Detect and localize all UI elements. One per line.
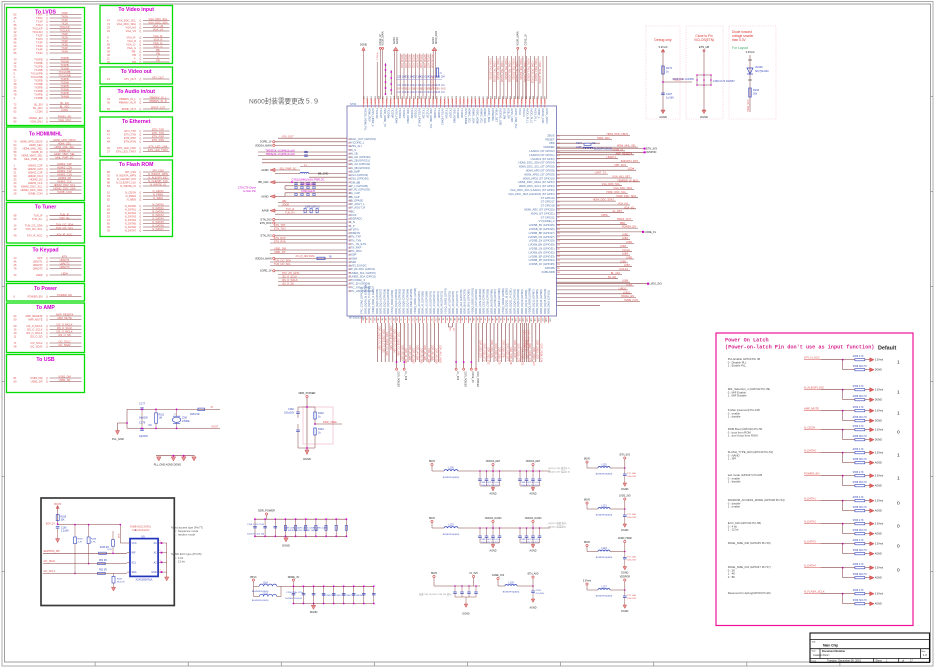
svg-text:C78(1)C(MHL)5u3A_PWR_DC: C78(1)C(MHL)5u3A_PWR_DC	[292, 179, 325, 182]
svg-text:1 : Enable PLL: 1 : Enable PLL	[728, 364, 747, 368]
svg-text:SEL_PWR_DC: SEL_PWR_DC	[280, 167, 297, 170]
svg-text:125: 125	[557, 229, 560, 231]
svg-text:0: 0	[897, 568, 900, 574]
svg-text:R164 0R: R164 0R	[190, 413, 200, 416]
svg-text:230: 230	[348, 244, 351, 246]
svg-text:DDR_POWER: DDR_POWER	[397, 372, 400, 388]
svg-text:LVDS_3V3: LVDS_3V3	[650, 283, 663, 286]
svg-text:R158 NC4.7K: R158 NC4.7K	[853, 436, 868, 438]
svg-text:4: 4	[160, 570, 161, 572]
svg-text:103: 103	[526, 318, 528, 321]
svg-text:72: 72	[407, 318, 409, 320]
svg-text:L139: L139	[576, 146, 582, 149]
svg-text:3.3Vmb: 3.3Vmb	[875, 543, 884, 546]
svg-text:89: 89	[472, 318, 474, 320]
svg-text:I2C_SDA1: I2C_SDA1	[44, 560, 56, 563]
svg-text:136: 136	[557, 272, 560, 274]
svg-text:L116: L116	[263, 594, 269, 596]
svg-text:2.2u/6V: 2.2u/6V	[61, 531, 69, 533]
svg-text:NC: NC	[452, 328, 454, 332]
svg-text:BLM18PG(0603): BLM18PG(0603)	[596, 515, 613, 517]
svg-text:PBD: PBD	[620, 222, 625, 225]
svg-text:DDR_DQ0_G70: DDR_DQ0_G70	[479, 340, 482, 358]
svg-text:1: 1	[897, 476, 900, 482]
svg-text:BFV1: BFV1	[250, 576, 257, 579]
svg-text:LVB1: LVB1	[622, 237, 629, 240]
svg-text:C77(1)1x1n5: C77(1)1x1n5	[301, 183, 315, 186]
svg-text:74: 74	[415, 318, 417, 320]
svg-text:3.3Vmb: 3.3Vmb	[875, 567, 884, 570]
svg-text:5LBADT3_KPX: 5LBADT3_KPX	[621, 160, 639, 163]
svg-text:AVD33_AD4: AVD33_AD4	[415, 55, 418, 69]
svg-text:3.3Vmb: 3.3Vmb	[875, 500, 884, 503]
svg-text:1 : disable: 1 : disable	[728, 480, 741, 484]
svg-text:L127: L127	[601, 586, 607, 589]
svg-text:NC: NC	[448, 328, 450, 332]
svg-text:VDDOA_DET: VDDOA_DET	[526, 460, 541, 463]
svg-text:VDDOA_NANN: VDDOA_NANN	[485, 517, 502, 520]
svg-text:ETN_TXP: ETN_TXP	[274, 224, 286, 227]
svg-text:BLM18PG(1005): BLM18PG(1005)	[252, 600, 269, 602]
svg-text:CAME_3V3: CAME_3V3	[492, 574, 505, 577]
svg-text:Z2M: Z2M	[182, 416, 187, 419]
svg-text:1 : 12 bit: 1 : 12 bit	[728, 528, 739, 532]
svg-text:AGND: AGND	[432, 37, 435, 44]
svg-text:L121: L121	[601, 505, 607, 508]
svg-text:DGND: DGND	[360, 44, 367, 47]
svg-text:100u/16V: 100u/16V	[284, 412, 295, 415]
svg-text:ETN_AVD: ETN_AVD	[528, 573, 539, 576]
svg-text:HDMI_TX10_SGN23: HDMI_TX10_SGN23	[527, 59, 530, 82]
svg-text:BB_CAD: BB_CAD	[258, 181, 268, 184]
svg-text:HDMI_MHL_SEL: HDMI_MHL_SEL	[617, 145, 637, 148]
svg-text:96: 96	[499, 318, 501, 320]
svg-text:217: 217	[348, 197, 351, 199]
svg-text:117: 117	[557, 198, 560, 200]
svg-text:107: 107	[541, 318, 543, 321]
svg-text:SPDIF_OUT: SPDIF_OUT	[617, 218, 632, 221]
svg-text:108: 108	[557, 163, 560, 165]
svg-text:DDR_DQ14_G74: DDR_DQ14_G74	[532, 347, 535, 366]
svg-text:VGA_DDC_SDA: VGA_DDC_SDA	[613, 187, 632, 190]
svg-text:DDR_DQ1_G71: DDR_DQ1_G71	[483, 344, 486, 362]
svg-text:227: 227	[348, 233, 351, 235]
svg-text:DGND: DGND	[621, 529, 628, 532]
svg-text:105: 105	[533, 318, 535, 321]
svg-text:AGND: AGND	[875, 577, 882, 580]
svg-text:121: 121	[557, 213, 560, 215]
svg-text:47u_R_ADJ R131: 47u_R_ADJ R131	[295, 255, 315, 258]
svg-text:VDDR_MAIN: VDDR_MAIN	[382, 31, 385, 45]
svg-text:109: 109	[549, 318, 551, 321]
svg-text:LBADT1: LBADT1	[607, 156, 617, 159]
svg-text:1 : disable: 1 : disable	[728, 415, 741, 419]
svg-text:3.3Vmb: 3.3Vmb	[875, 452, 884, 455]
svg-text:R158 NC4.7K: R158 NC4.7K	[853, 507, 868, 509]
svg-text:214: 214	[348, 186, 351, 188]
svg-text:HDMI_TX5_SGN23: HDMI_TX5_SGN23	[508, 61, 511, 83]
svg-text:118: 118	[557, 202, 560, 204]
svg-text:DGND: DGND	[462, 613, 469, 616]
svg-text:79: 79	[434, 318, 436, 320]
svg-text:86: 86	[461, 318, 463, 320]
svg-text:DDR_A6_G66: DDR_A6_G66	[423, 345, 426, 361]
svg-text:100: 100	[514, 318, 516, 321]
svg-text:AMP_RESET#: AMP_RESET#	[615, 152, 632, 155]
svg-text:XMHL: XMHL	[601, 214, 609, 217]
svg-text:0: 0	[897, 501, 900, 507]
svg-text:B0V0: B0V0	[429, 460, 436, 463]
svg-text:R347: R347	[78, 539, 84, 541]
svg-text:BL_ADJ: BL_ADJ	[611, 272, 621, 275]
svg-text:C163: C163	[536, 590, 542, 592]
svg-text:24p/50V: 24p/50V	[139, 417, 148, 420]
svg-text:R162: R162	[318, 412, 324, 415]
svg-text:1 : enable: 1 : enable	[728, 505, 741, 509]
svg-text:SCL: SCL	[132, 561, 137, 564]
svg-text:R179: R179	[576, 142, 582, 145]
svg-text:61: 61	[365, 318, 367, 320]
svg-text:1 : 12 bit: 1 : 12 bit	[174, 559, 185, 563]
svg-text:100u/16V: 100u/16V	[627, 560, 637, 562]
svg-text:AGND: AGND	[490, 493, 497, 496]
svg-text:TMDS(2)L-LC(MHL)1x1n5: TMDS(2)L-LC(MHL)1x1n5	[265, 153, 295, 156]
svg-text:To Audio in/out: To Audio in/out	[117, 89, 155, 95]
svg-text:DGND: DGND	[875, 369, 882, 372]
svg-text:R158 NC4.7K: R158 NC4.7K	[853, 482, 868, 484]
svg-text:R158 NC4.7K: R158 NC4.7K	[853, 366, 868, 368]
svg-text:AVD33_AD5: AVD33_AD5	[419, 55, 422, 69]
svg-text:DDR_DQ15_G75: DDR_DQ15_G75	[536, 340, 539, 359]
svg-text:94: 94	[491, 318, 493, 320]
svg-text:LVB4: LVB4	[622, 253, 629, 256]
svg-text:BOV5: BOV5	[54, 503, 61, 506]
svg-text:LVB0: LVB0	[622, 233, 629, 236]
svg-text:60: 60	[361, 318, 363, 320]
svg-text:R247: R247	[117, 579, 123, 581]
svg-text:NC4.7K: NC4.7K	[117, 581, 125, 583]
svg-text:210: 210	[348, 171, 351, 173]
svg-text:R156 4.7K: R156 4.7K	[853, 520, 864, 522]
svg-text:24p/50V: 24p/50V	[139, 435, 148, 438]
svg-text:62: 62	[369, 318, 371, 320]
svg-text:204: 204	[348, 150, 351, 152]
svg-text:4.7u/16V: 4.7u/16V	[536, 593, 545, 595]
svg-text:101: 101	[518, 318, 520, 321]
svg-text:63: 63	[373, 318, 375, 320]
svg-text:DDR_A7_G67: DDR_A7_G67	[427, 348, 430, 364]
svg-text:R161: R161	[159, 414, 165, 417]
svg-text:DDR_DQ4_G74: DDR_DQ4_G74	[494, 344, 497, 362]
svg-text:To USB: To USB	[36, 357, 55, 363]
svg-text:4.7K: 4.7K	[91, 541, 96, 543]
svg-text:113R/113R 0.5: 113R/113R 0.5	[304, 206, 320, 208]
svg-text:C146 104 C147 0.1u: C146 104 C147 0.1u	[520, 482, 540, 484]
svg-text:105: 105	[557, 151, 560, 153]
svg-text:ETN_TXN: ETN_TXN	[274, 228, 286, 231]
svg-text:1.0: 1.0	[923, 653, 927, 657]
svg-text:UART_TX: UART_TX	[595, 172, 607, 175]
svg-text:112: 112	[557, 178, 560, 180]
svg-text:5VMB_CON: 5VMB_CON	[624, 299, 638, 302]
svg-text:NAND ECC type (Pin76): NAND ECC type (Pin76)	[171, 552, 202, 556]
svg-text:91: 91	[480, 318, 482, 320]
svg-text:126: 126	[557, 233, 560, 235]
svg-text:R348: R348	[91, 539, 97, 541]
svg-text:USB1_DP: USB1_DP	[274, 251, 286, 254]
svg-text:Reserved for debug(GPIO9 Pin16: Reserved for debug(GPIO9 Pin16)	[728, 591, 771, 595]
svg-text:of: of	[902, 660, 904, 663]
svg-text:HDMI_CEC: HDMI_CEC	[597, 137, 610, 140]
svg-text:HDMI_TX6_SGN23: HDMI_TX6_SGN23	[511, 59, 514, 81]
svg-text:ETN_RXN: ETN_RXN	[274, 241, 286, 244]
svg-text:119: 119	[557, 206, 560, 208]
svg-text:Need access type (Pin77): Need access type (Pin77)	[171, 525, 203, 529]
svg-text:95: 95	[495, 318, 497, 320]
svg-text:AGND: AGND	[530, 493, 537, 496]
svg-text:Main Chip: Main Chip	[823, 643, 838, 647]
svg-text:POWER_EN: POWER_EN	[622, 226, 637, 229]
svg-text:B0V0: B0V0	[429, 517, 436, 520]
svg-text:I2S_O_SCLK: I2S_O_SCLK	[282, 276, 297, 279]
svg-text:10K: 10K	[61, 519, 66, 521]
svg-text:3.3Vmb: 3.3Vmb	[875, 389, 884, 392]
svg-text:I2S_O_WCLK: I2S_O_WCLK	[282, 279, 298, 282]
svg-text:AGND: AGND	[490, 550, 497, 553]
svg-text:C168 C171 104/50V: C168 C171 104/50V	[672, 78, 694, 81]
svg-text:C160: C160	[61, 528, 67, 530]
svg-text:AVDD_HDMI: AVDD_HDMI	[618, 537, 632, 540]
svg-text:DDR_DQS2_CK_G52: DDR_DQS2_CK_G52	[385, 332, 388, 356]
svg-text:DDR_POWER: DDR_POWER	[476, 372, 479, 388]
svg-text:LVB2: LVB2	[626, 241, 633, 244]
svg-text:VDDOA_MAIN: VDDOA_MAIN	[255, 257, 272, 260]
svg-text:1: 1	[160, 541, 161, 543]
svg-text:LVB7: LVB7	[624, 264, 631, 267]
svg-text:Default: Default	[878, 346, 896, 352]
svg-text:113: 113	[557, 182, 560, 184]
svg-text:I2S_O_SD: I2S_O_SD	[282, 283, 294, 286]
svg-text:AVD33_AD0: AVD33_AD0	[400, 55, 403, 69]
svg-text:TUN_IF: TUN_IF	[286, 208, 295, 211]
svg-text:HDMI_TX4_SGN23: HDMI_TX4_SGN23	[504, 59, 507, 81]
svg-text:R164: R164	[318, 428, 324, 431]
svg-text:HDMI_TX12_SGN23: HDMI_TX12_SGN23	[534, 59, 537, 82]
svg-text:205: 205	[348, 153, 351, 155]
svg-text:VCC: VCC	[132, 542, 137, 545]
svg-text:223: 223	[348, 218, 351, 220]
svg-text:BLM18PG(0603): BLM18PG(0603)	[443, 477, 460, 479]
svg-text:DDR_POWER: DDR_POWER	[464, 372, 467, 388]
svg-text:HDMI_TX11_SGN23: HDMI_TX11_SGN23	[530, 61, 533, 84]
svg-text:122: 122	[557, 217, 560, 219]
svg-text:114: 114	[557, 186, 560, 188]
svg-text:235: 235	[348, 262, 351, 264]
svg-text:HDMI_DDC_SDA: HDMI_DDC_SDA	[616, 195, 636, 198]
svg-text:LVCLK: LVCLK	[622, 249, 630, 252]
svg-text:132: 132	[557, 256, 560, 258]
svg-text:3: 3	[160, 560, 161, 562]
svg-text:Close to Pin: Close to Pin	[695, 34, 712, 38]
svg-text:AGND: AGND	[875, 603, 882, 606]
svg-text:ETN_3V3: ETN_3V3	[261, 218, 272, 221]
svg-text:X24C08S8T&A: X24C08S8T&A	[136, 579, 153, 582]
svg-text:69: 69	[396, 318, 398, 320]
svg-text:90: 90	[476, 318, 478, 320]
svg-text:HDMI_TX2_SGN23: HDMI_TX2_SGN23	[496, 59, 499, 81]
svg-text:HDMI_TX8_SGN23: HDMI_TX8_SGN23	[519, 59, 522, 81]
svg-text:R246 0R: R246 0R	[100, 547, 109, 549]
svg-text:73: 73	[411, 318, 413, 320]
svg-text:CORE_1V: CORE_1V	[260, 270, 272, 273]
svg-text:229: 229	[348, 240, 351, 242]
svg-text:108: 108	[545, 318, 547, 321]
svg-text:L114: L114	[263, 583, 269, 585]
svg-text:LVB11: LVB11	[623, 291, 631, 294]
svg-text:224: 224	[348, 222, 351, 224]
svg-text:For Layout: For Layout	[732, 46, 748, 50]
svg-text:TUN_I2C_SDA: TUN_I2C_SDA	[274, 260, 291, 263]
svg-text:LVDS_3V3: LVDS_3V3	[619, 495, 631, 498]
svg-text:ETN_RXP: ETN_RXP	[274, 237, 286, 240]
svg-text:B0V5: B0V5	[431, 572, 438, 575]
svg-text:EEP: EEP	[119, 533, 121, 538]
svg-text:3.3Vmb: 3.3Vmb	[875, 593, 884, 596]
svg-text:AGND: AGND	[875, 462, 882, 465]
svg-text:DGND: DGND	[621, 572, 628, 575]
svg-text:84: 84	[453, 318, 455, 320]
svg-text:5VMB NC(3.3V/5V): 5VMB NC(3.3V/5V)	[130, 526, 151, 529]
svg-text:111: 111	[557, 174, 560, 176]
svg-text:than 0.3V: than 0.3V	[732, 38, 747, 42]
svg-text:71: 71	[403, 318, 405, 320]
svg-text:100u/16V: 100u/16V	[627, 598, 637, 600]
svg-text:BLM18PG(0603): BLM18PG(0603)	[596, 474, 613, 476]
svg-text:236: 236	[348, 266, 351, 268]
svg-text:77: 77	[426, 318, 428, 320]
svg-text:80: 80	[438, 318, 440, 320]
svg-text:GND: GND	[151, 571, 157, 574]
svg-text:AGND: AGND	[261, 169, 268, 172]
svg-text:CORE_1V: CORE_1V	[645, 231, 657, 234]
svg-text:R158 NC4.7K: R158 NC4.7K	[853, 550, 868, 552]
svg-text:To Ethernet: To Ethernet	[122, 119, 151, 125]
svg-text:DGND: DGND	[875, 399, 882, 402]
svg-text:AGND: AGND	[393, 37, 396, 44]
svg-text:115: 115	[557, 190, 560, 192]
svg-text:NC 104 NC 104 NC 104 NC 104 10: NC 104 NC 104 NC 104 NC 104 104	[284, 530, 319, 532]
svg-text:To Video out: To Video out	[121, 69, 152, 75]
svg-text:EEPROM_WP: EEPROM_WP	[44, 550, 61, 553]
svg-text:75: 75	[419, 318, 421, 320]
svg-text:R158 NC4.7K: R158 NC4.7K	[853, 417, 868, 419]
svg-text:R156 4.7K: R156 4.7K	[853, 386, 864, 388]
svg-text:DDR_CKE_G89: DDR_CKE_G89	[523, 330, 526, 348]
svg-text:100u/16V: 100u/16V	[627, 476, 637, 478]
svg-text:To HDMI/MHL: To HDMI/MHL	[29, 132, 63, 138]
svg-text:DDR_A3_G63: DDR_A3_G63	[412, 348, 415, 364]
svg-text:BLM18PG(0603): BLM18PG(0603)	[443, 534, 460, 536]
svg-text:98: 98	[507, 318, 509, 320]
svg-text:1M: 1M	[159, 417, 162, 420]
svg-text:238: 238	[348, 273, 351, 275]
svg-text:DDR_DQ16_G76: DDR_DQ16_G76	[540, 344, 543, 363]
svg-text:116: 116	[557, 194, 560, 196]
svg-text:237: 237	[348, 269, 351, 271]
svg-text:DDR_CSB_G90: DDR_CSB_G90	[527, 330, 530, 348]
svg-text:R156 4.7K: R156 4.7K	[853, 497, 864, 499]
svg-text:93: 93	[487, 318, 489, 320]
svg-text:AGND: AGND	[530, 550, 537, 553]
svg-text:HDMI_TX1_SGN23: HDMI_TX1_SGN23	[492, 61, 495, 83]
svg-text:4.7K: 4.7K	[78, 541, 83, 543]
svg-text:HDMI_TX3_SGN23: HDMI_TX3_SGN23	[500, 61, 503, 83]
svg-text:DDR_A10_G610: DDR_A10_G610	[438, 345, 441, 364]
svg-text:DGND: DGND	[621, 488, 628, 491]
svg-text:DDR_DQ6_G76: DDR_DQ6_G76	[502, 340, 505, 358]
svg-text:LVCLK2: LVCLK2	[619, 268, 629, 271]
svg-text:BLM18PG(0603): BLM18PG(0603)	[596, 557, 613, 559]
svg-text:AVD33_AD3: AVD33_AD3	[412, 55, 415, 69]
svg-text:VDDOA_MAIN: VDDOA_MAIN	[255, 144, 272, 147]
svg-text:3.3Vmb: 3.3Vmb	[875, 410, 884, 413]
svg-text:203: 203	[348, 146, 351, 148]
svg-text:B0V0: B0V0	[584, 458, 591, 461]
svg-text:BB_GND: BB_GND	[318, 173, 328, 176]
svg-text:R156 4.7K: R156 4.7K	[853, 590, 864, 592]
svg-text:AVD33_AD6: AVD33_AD6	[423, 55, 426, 69]
svg-text:133: 133	[557, 260, 560, 262]
svg-text:R163: R163	[753, 89, 760, 92]
svg-text:Debug only: Debug only	[654, 38, 671, 42]
svg-text:L122: L122	[448, 524, 454, 527]
svg-text:voltage smaller: voltage smaller	[732, 34, 754, 38]
svg-text:VGA_DDC_SCL: VGA_DDC_SCL	[602, 183, 621, 186]
svg-text:DDR_DQ10_G70: DDR_DQ10_G70	[517, 344, 520, 363]
svg-text:ATV_OUT: ATV_OUT	[282, 136, 294, 139]
svg-text:242: 242	[348, 287, 351, 289]
svg-text:L135: L135	[508, 582, 514, 585]
svg-text:102: 102	[522, 318, 524, 321]
svg-text:R158 NC4.7K: R158 NC4.7K	[853, 459, 868, 461]
svg-text:HDMI_HPD_CBUS: HDMI_HPD_CBUS	[607, 133, 629, 136]
svg-text:BL_EN: BL_EN	[608, 276, 616, 279]
svg-text:78: 78	[430, 318, 432, 320]
svg-text:R156 4.7K: R156 4.7K	[853, 407, 864, 409]
svg-text:DDR_DQ3_G73: DDR_DQ3_G73	[490, 340, 493, 358]
svg-text:LED#: LED#	[628, 168, 635, 171]
svg-text:TMDS(0)L-LC(MHL)1x1n5: TMDS(0)L-LC(MHL)1x1n5	[265, 150, 295, 153]
svg-text:C45 104: C45 104	[436, 92, 445, 94]
svg-text:220: 220	[348, 208, 351, 210]
svg-text:127: 127	[557, 237, 560, 239]
svg-text:Diode forward: Diode forward	[732, 30, 752, 34]
svg-text:CORE_1V: CORE_1V	[524, 34, 527, 46]
svg-text:LVB6: LVB6	[620, 260, 627, 263]
svg-text:128: 128	[557, 241, 560, 243]
svg-text:Sheet: Sheet	[876, 660, 883, 663]
svg-text:C234 C26x C25x: C234 C26x C25x	[286, 592, 304, 594]
svg-text:AVDD_ADM: AVDD_ADM	[435, 31, 438, 44]
svg-text:218: 218	[348, 200, 351, 202]
svg-text:DDR_DQ8_G78: DDR_DQ8_G78	[509, 347, 512, 365]
svg-text:129: 129	[557, 245, 560, 247]
svg-text:VDDPOR: VDDPOR	[620, 576, 631, 579]
svg-text:To Power: To Power	[34, 286, 57, 292]
svg-text:HDMI_TX13_SGN23: HDMI_TX13_SGN23	[538, 61, 541, 84]
svg-text:3.3Vmb: 3.3Vmb	[875, 429, 884, 432]
svg-text:(Power-on-latch Pin don't use: (Power-on-latch Pin don't use as input f…	[725, 345, 874, 351]
